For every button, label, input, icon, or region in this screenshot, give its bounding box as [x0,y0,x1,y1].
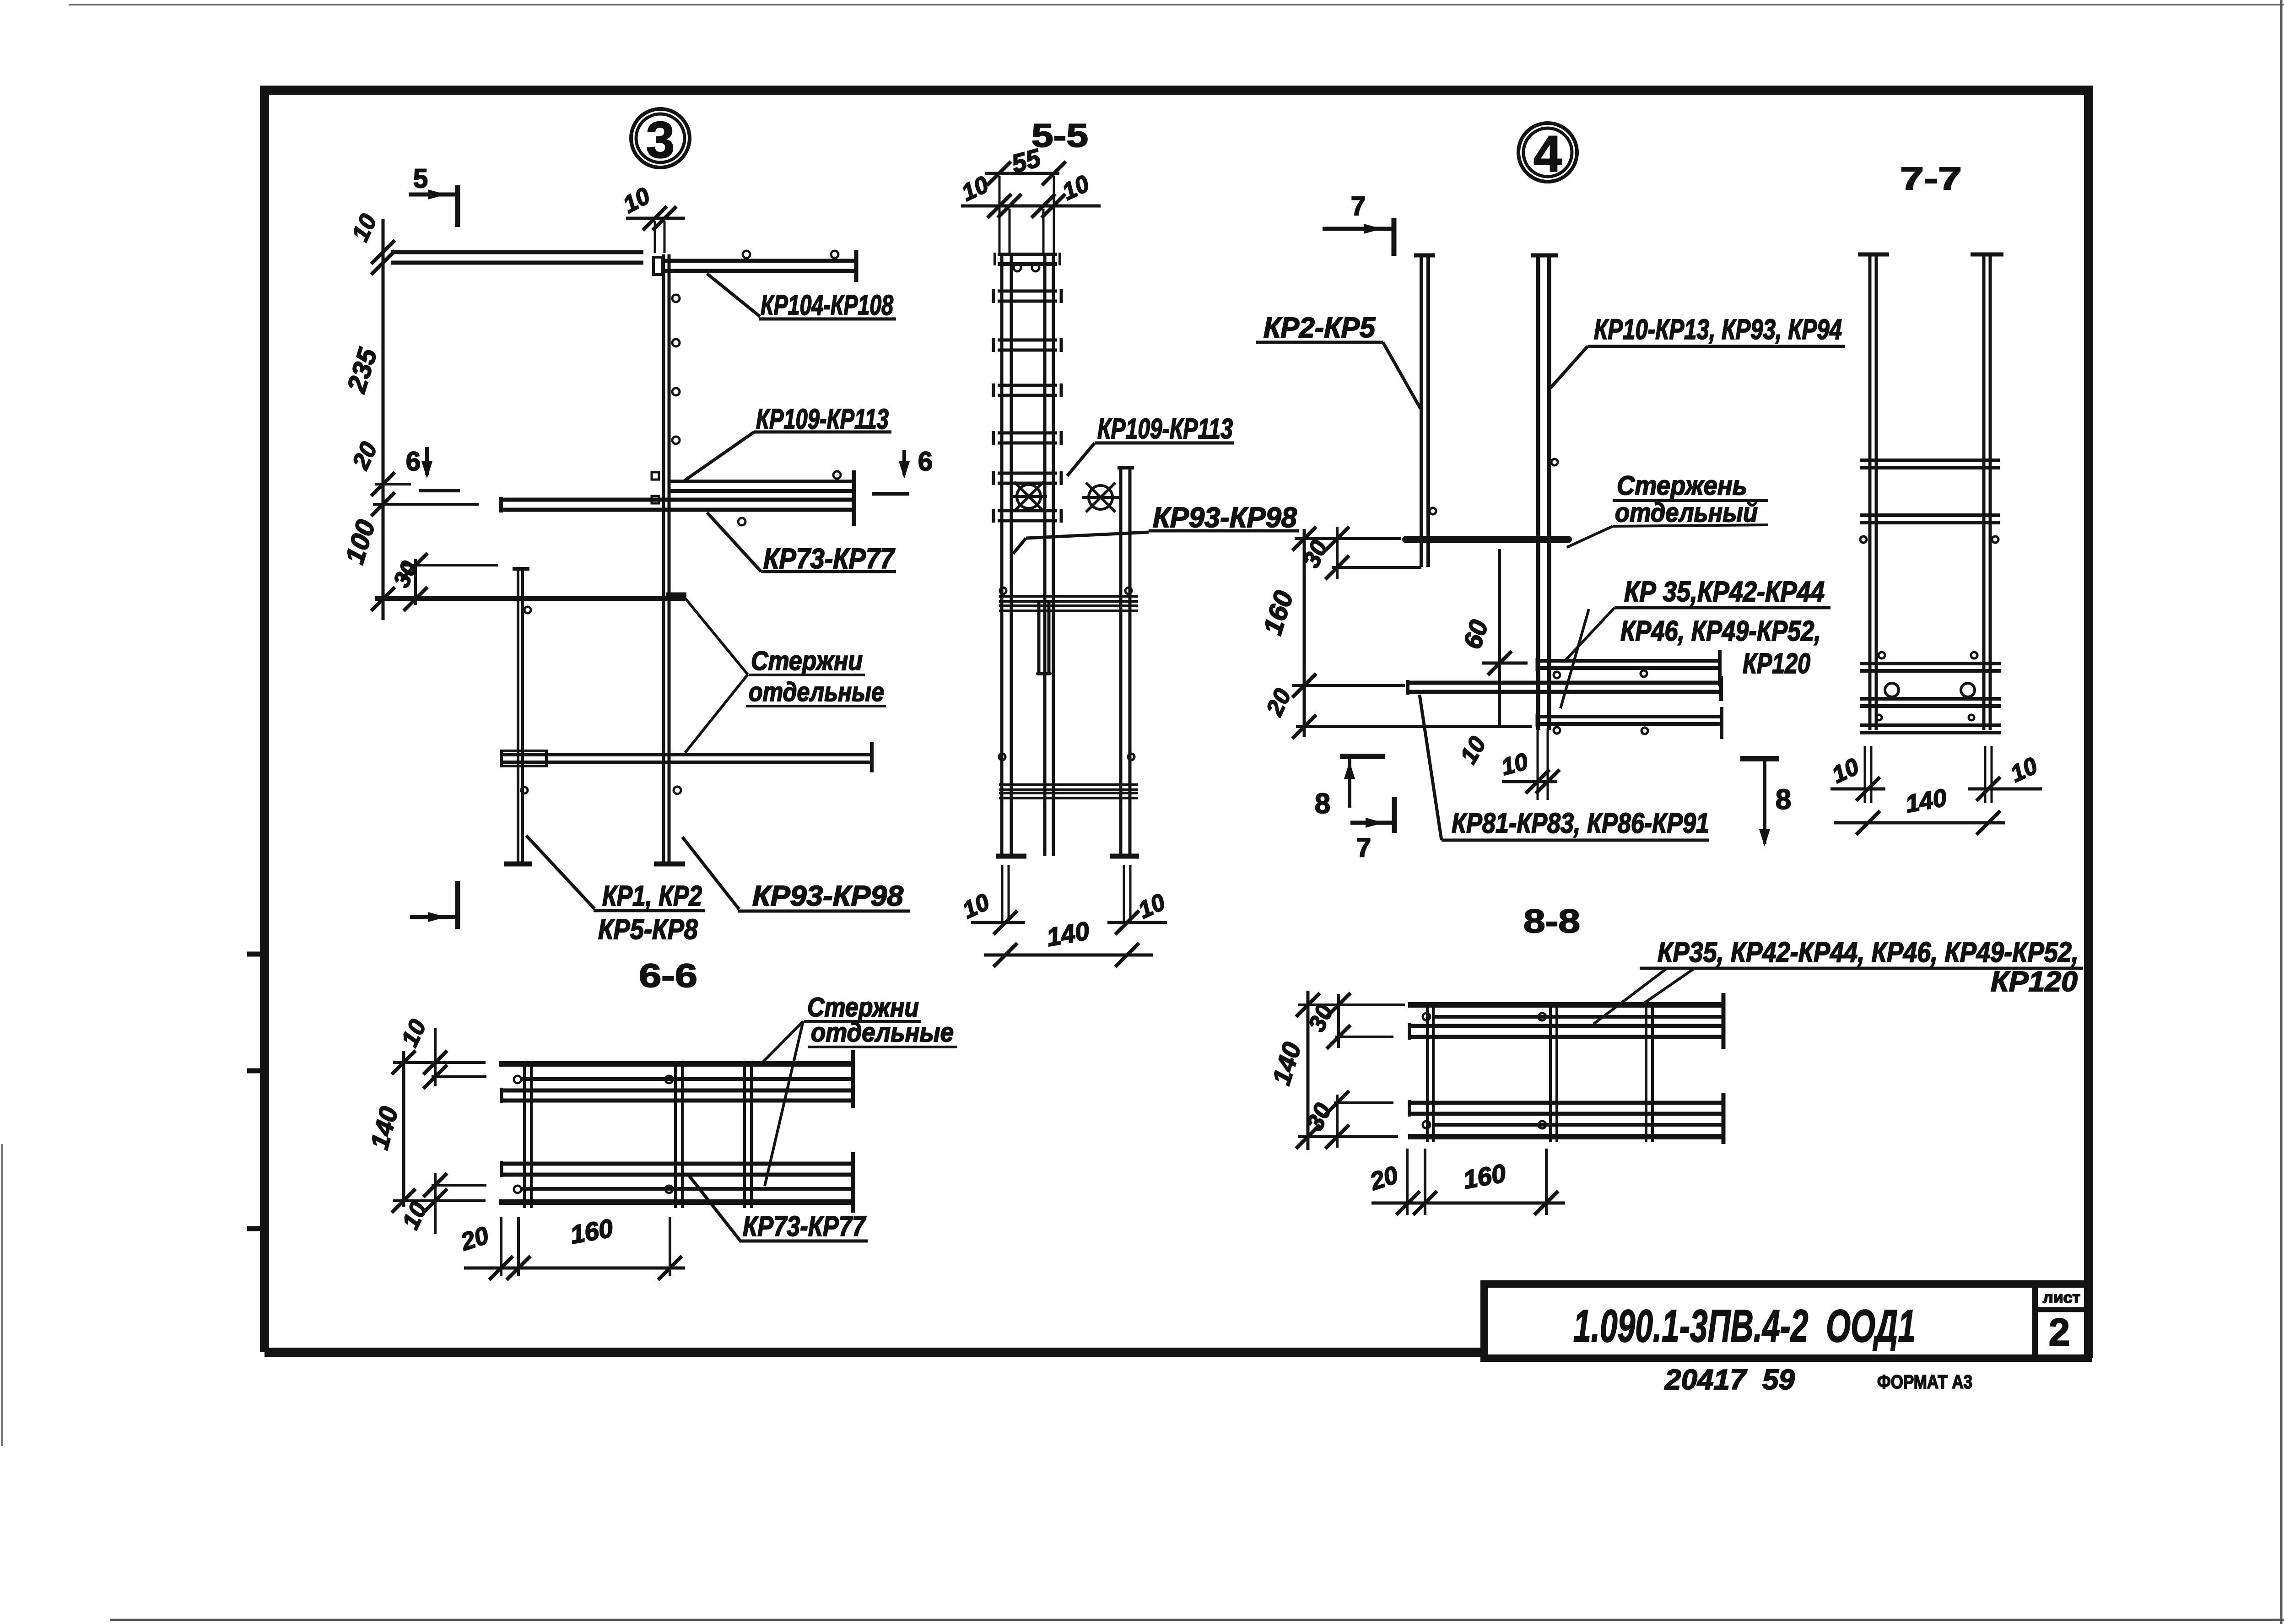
label КР93-КР98 (5-5) [1013,538,1026,554]
bar КР109-КР113 (view3 mid upper) [669,480,852,483]
scan edge right [2280,0,2283,1624]
section marker 8 left [1340,754,1385,759]
dimension 30 bottom (8-8) [1336,1095,1339,1148]
svg-text:КР109-КР113: КР109-КР113 [756,404,889,435]
label КР73-КР77 (6-6) [688,1175,740,1241]
svg-text:7: 7 [1351,191,1366,221]
ladder top bar [998,253,1057,256]
label КР104-КР108 [707,274,760,317]
wide rung pair upper (5-5) [999,595,1138,598]
dimension 10 10 (view4 bottom) [1537,728,1539,800]
post weld dots [672,295,680,302]
dimension 20 160 (6-6) [500,1217,502,1276]
post right (7-7) [1982,253,1986,730]
dimension 140 (7-7) [1834,821,2005,825]
section marker 5 bottom [455,881,460,929]
title block divider horizontal [2035,1307,2089,1312]
extension lines 5-5 bottom [1001,865,1004,923]
title block box [1484,1284,2089,1358]
bar bottom (6-6) [499,1199,852,1205]
section marker 6 left [425,447,429,475]
svg-text:КР109-КР113: КР109-КР113 [1097,413,1233,445]
dimension chain 8-8 left [1307,991,1310,1150]
scan edge bottom [110,1619,2284,1621]
svg-text:КР5-КР8: КР5-КР8 [598,914,698,945]
connector left (6-6) [523,1061,526,1208]
svg-text:7-7: 7-7 [1900,161,1962,196]
dimension 10 10 (5-5 top) [961,205,1101,208]
svg-text:5-5: 5-5 [1031,118,1088,154]
extension lines (7-7) [1864,746,1866,803]
section marker 8 right [1740,756,1779,761]
label КР109-КР113 (view3) [685,432,754,480]
dimension chain view3 left: vertical line [382,219,385,620]
svg-text:КР10-КР13, КР93, КР94: КР10-КР13, КР93, КР94 [1594,314,1842,345]
post КР93-КР98 (view3 main vertical) [662,254,665,862]
view marker circle 3 [631,109,690,167]
section marker 7 top [1323,227,1394,231]
dimension 10 10 (7-7) [1830,788,1885,791]
rod отдельный (view3 level 3) [375,596,685,601]
svg-text:лист: лист [2043,1289,2080,1306]
end ticks right (6-6) [851,1050,855,1108]
bar B5 bottom (7-7) [1860,723,2001,727]
ladder rung 1 [998,290,1057,293]
frame fold tick 1 [247,952,265,957]
svg-text:отдельные: отдельные [811,1018,954,1047]
ladder rung 2 [998,339,1057,342]
bar B1 (7-7) [1860,459,2000,462]
bar pair lower (8-8) [1408,1101,1722,1105]
dimension 60 (view4) [1498,549,1501,725]
label КР81-КР83, КР86-КР91 [1420,695,1442,840]
connector middle (6-6) [674,1061,677,1208]
svg-text:КР120: КР120 [1743,648,1810,680]
bar bottom (8-8) [1408,1134,1722,1139]
svg-text:2: 2 [2049,1311,2070,1354]
bar КР35 КР42-КР44 upper (view4) [1536,659,1720,663]
label КР1, КР2 / КР5-КР8 [526,836,594,909]
svg-text:КР81-КР83, КР86-КР91: КР81-КР83, КР86-КР91 [1452,808,1709,839]
dimension 30 (view4) [1336,527,1339,579]
svg-text:4: 4 [1533,125,1562,183]
ladder post left (5-5) [1000,253,1004,856]
anchor loop symbol right [1082,483,1119,512]
svg-text:КР2-КР5: КР2-КР5 [1263,312,1376,344]
svg-text:КР104-КР108: КР104-КР108 [761,290,893,321]
label КР35, КР42-КР44, КР46, КР49-КР52, КР120 (8-8) [1643,969,1693,1004]
side nubs (7-7) [1860,536,1867,543]
svg-text:3: 3 [646,111,675,168]
bar top left segment (edge-on plank) [391,250,643,254]
post left (7-7) [1868,253,1872,730]
dimension 30 (view3 sub) [414,559,417,605]
bar top (8-8) [1408,1002,1722,1008]
frame fold tick 2 [247,1068,265,1074]
rod отдельный hanging (5-5) [1037,600,1041,672]
svg-text:20417 59: 20417 59 [1664,1364,1795,1396]
ladder feet (5-5) [996,854,1026,859]
scan edge top [69,4,2284,5]
label КР93-КР98 (view3) [682,837,739,909]
bar top (6-6) [499,1061,852,1067]
svg-text:8: 8 [1315,788,1330,820]
bar pair lower (6-6) [500,1162,852,1166]
rod отдельный (view3 level 4) [502,753,872,756]
svg-text:Стержень: Стержень [1617,471,1747,501]
ladder rung 5 [998,472,1057,475]
section marker 7 bottom [1350,821,1394,825]
post КР10-КР13 КР93 КР94 (view4 right) [1536,254,1540,730]
svg-text:6-6: 6-6 [639,958,697,994]
connector right (6-6) [743,1061,746,1208]
label Стержни отдельные (6-6) [763,1021,803,1062]
svg-text:КР93-КР98: КР93-КР98 [1153,502,1297,534]
holes (7-7) [1885,683,1899,697]
svg-text:КР46, КР49-КР52,: КР46, КР49-КР52, [1620,615,1821,647]
svg-text:КР 35,КР42-КР44: КР 35,КР42-КР44 [1624,576,1825,608]
ladder rung 6 [998,509,1057,513]
svg-text:Стержни: Стержни [751,646,863,676]
anchor loop symbol left [1010,482,1047,511]
connector left (8-8) [1426,1002,1429,1142]
thin rod lower (6-6) [522,1187,852,1191]
ladder rung 4 [998,432,1057,435]
rod стержень отдельный (view4) [1406,536,1568,543]
svg-text:КР35, КР42-КР44, КР46, КР49-КР: КР35, КР42-КР44, КР46, КР49-КР52, [1658,937,2079,968]
svg-text:КР1, КР2: КР1, КР2 [602,880,702,912]
label КР10-КР13, КР93, КР94 [1550,346,1587,388]
label КР35,КР42-КР44 / КР46,КР49-КР52 / КР120 [1564,608,1614,662]
post КР1 КР2 КР5-КР8 (view3 left vertical) [517,567,519,862]
svg-text:отдельные: отдельные [749,677,884,707]
dimension 10 bottom (6-6) [434,1173,437,1234]
thin rod upper (6-6) [522,1077,852,1081]
svg-text:КР73-КР77: КР73-КР77 [743,1211,866,1242]
dimension extension line y1058 [375,483,411,486]
extension lines 5-5 top [999,176,1001,253]
bar pair upper (8-8) [1408,1024,1722,1028]
dimension 10 (view3 top, above post) [626,217,685,220]
svg-text:КР120: КР120 [1991,966,2078,998]
bar B4 (7-7) [1860,697,2001,701]
bar B2 (7-7) [1860,513,2000,517]
svg-text:отдельный: отдельный [1615,498,1758,528]
bar B3 (7-7) [1860,662,2001,665]
drawing frame border [265,90,2089,1358]
view marker circle 4 [1518,123,1577,182]
bar КР104-КР108 [662,259,855,263]
label КР2-КР5 [1383,342,1420,409]
svg-text:6: 6 [918,447,933,476]
dimension 55 [985,172,1059,175]
svg-text:8: 8 [1776,784,1791,815]
bar КР35 КР42-КР44 lower (view4) [1536,715,1722,718]
dimension extension line y1102 [373,503,479,506]
frame fold tick 3 [247,1226,265,1231]
svg-text:6: 6 [406,447,421,476]
scan edge left [1,1144,3,1446]
dimension 10 top (6-6) [434,1028,437,1086]
post КР93-КР98 (5-5 right) [1119,466,1123,856]
dimension 10 10 (5-5 bottom) [971,921,1025,924]
bar КР81-КР83 КР86-КР91 (view4 long) [1406,681,1720,685]
svg-text:5: 5 [413,164,428,194]
connector middle (8-8) [1549,1002,1552,1142]
bar pair upper (6-6) [500,1089,852,1093]
title block divider vertical [2032,1284,2038,1358]
dimension 20 160 (8-8) [1406,1149,1409,1215]
connector right (8-8) [1645,1002,1647,1142]
ladder rung 3 [998,384,1057,387]
post КР2-КР5 (view4 left) [1420,254,1423,567]
svg-text:ФОРМАТ А3: ФОРМАТ А3 [1877,1371,1972,1392]
svg-text:1.090.1-3ПВ.4-2 ООД1: 1.090.1-3ПВ.4-2 ООД1 [1573,1300,1916,1352]
label Стержни отдельные (view3) [685,598,748,674]
thin rod lower (8-8) [1432,1123,1722,1127]
svg-text:КР93-КР98: КР93-КР98 [752,880,904,912]
ladder post right (5-5) [1043,253,1047,856]
thin rod upper (8-8) [1432,1015,1722,1019]
dimension chain 6-6 left [402,1051,405,1207]
svg-text:8-8: 8-8 [1523,903,1580,940]
post side nubs at mid bar [652,472,659,480]
svg-text:7: 7 [1356,833,1371,863]
bar КР73-КР77 (view3 mid lower) [500,498,855,502]
label КР73-КР77 (view3) [707,513,761,572]
end ticks right (8-8) [1722,993,1726,1049]
wide rung pair lower (5-5) [999,783,1138,786]
label Стержень отдельный [1567,526,1613,547]
dimension 30 top (8-8) [1337,994,1340,1048]
section marker 5 top [409,193,458,197]
dimension chain view4 left [1303,529,1306,737]
label КР109-КР113 (5-5) [1067,443,1095,476]
dimension 140 (5-5) [984,954,1153,957]
section marker 6 right [902,450,906,475]
post foot plate (main) [654,862,685,867]
svg-text:КР73-КР77: КР73-КР77 [763,543,895,575]
